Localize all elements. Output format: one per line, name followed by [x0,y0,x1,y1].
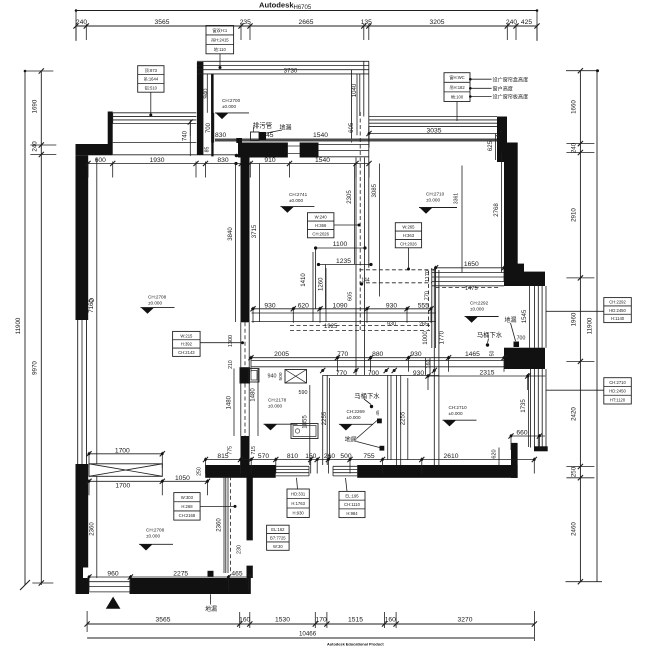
dim 2768 vertical [493,153,502,273]
label huasa [345,421,380,448]
svg-text:230: 230 [236,545,242,554]
dim 660 [508,429,545,450]
washbasin [245,369,259,383]
bedroomA east wall lines [356,158,365,376]
svg-text:2360: 2360 [88,522,95,536]
entry arrow triangle [106,597,121,609]
svg-text:265: 265 [419,321,428,327]
svg-text:CH:2710: CH:2710 [449,405,468,410]
svg-text:85: 85 [205,147,211,153]
callout tag box at 444,72.7 [444,73,492,121]
dim row y139 [215,132,328,139]
vanity cabinet [285,370,307,384]
shower squares [377,419,384,451]
bathtub [291,424,318,439]
svg-text:±0.000: ±0.000 [222,104,236,109]
dim row 1700/1050 [86,475,210,496]
dim 3840 vertical [227,164,236,323]
svg-text:HD:2450: HD:2450 [609,308,626,313]
svg-text:窗H:WC: 窗H:WC [449,74,464,81]
svg-text:HD:331: HD:331 [291,491,306,496]
svg-text:425: 425 [521,19,532,26]
room label CH:2700 [215,98,249,119]
svg-text:2460: 2460 [571,522,578,536]
door central 1 [241,322,249,367]
svg-text:1660: 1660 [571,100,578,114]
dim 2255 vertical a [321,378,329,460]
door hinge circle [90,298,94,302]
svg-text:1530: 1530 [275,616,290,623]
dim 1475 dashed [436,286,499,292]
dim 700 vertical [205,113,214,143]
room2 east wall upper [247,476,253,540]
wall south east segment [357,465,517,478]
svg-text:CH:2741: CH:2741 [289,192,308,197]
dim 1855 vertical [302,385,310,465]
svg-text:CH:2178: CH:2178 [268,397,287,402]
svg-text:H:268: H:268 [181,504,193,509]
svg-text:3270: 3270 [458,616,473,623]
wall bottom-left block [76,578,90,594]
dim 1040 vertical [351,74,360,116]
label dilou toilet [504,316,516,341]
callout tag box at 206,25.5 [206,26,234,67]
svg-text:160: 160 [426,360,432,369]
svg-text:Autodesk: Autodesk [259,1,294,10]
svg-text:3035: 3035 [427,127,442,134]
svg-text:CH:2700: CH:2700 [222,98,241,103]
svg-text:240: 240 [76,19,87,26]
svg-text:地漏: 地漏 [504,316,516,324]
wall central upper [241,144,250,323]
dim row y163 [85,157,371,178]
dim 1735 vertical [520,373,529,447]
callout tag box at 137.7,65.7 [138,66,164,114]
dot duct cross [360,282,363,285]
svg-text:910: 910 [264,157,275,164]
dim 625 vertical [487,134,495,161]
svg-text:555: 555 [418,302,429,309]
svg-text:1260: 1260 [317,277,324,291]
wall thin x211 [211,74,213,156]
callout tag box at 603.8,297.6 [546,298,631,323]
svg-text:CH:2708: CH:2708 [148,294,167,299]
wall left bottom small [76,568,84,595]
dim 2315 [425,369,545,390]
svg-text:700: 700 [205,122,212,133]
room label CH:2710 [443,405,477,427]
svg-text:135: 135 [361,19,372,26]
dim 2305 vertical [346,164,355,265]
svg-text:465: 465 [231,570,242,577]
svg-text:770: 770 [337,351,348,358]
room label CH:2292 [465,300,499,322]
dim 2360 vertical b [216,476,224,573]
svg-text:马桶下水: 马桶下水 [354,391,380,400]
cabinet hatched [89,464,162,477]
wall central lower [241,436,250,477]
svg-text:CH:2708: CH:2708 [146,527,165,532]
svg-text:50: 50 [490,351,496,357]
dim 2360 vertical a [88,476,96,578]
svg-text:1700: 1700 [115,482,130,489]
dim 3085 vertical [371,164,380,297]
svg-text:1050: 1050 [175,475,190,482]
svg-text:窗户高度: 窗户高度 [493,85,513,92]
dim 740 vertical [182,119,193,156]
room2 east door [247,540,253,566]
room label CH:2710 [419,191,457,213]
room label CH:2708 [139,527,173,550]
svg-text:940: 940 [203,88,210,99]
callout tag box at 266.6,525.2 [267,525,290,550]
svg-text:CH:1110: CH:1110 [344,502,361,507]
svg-text:W:215: W:215 [180,333,193,338]
svg-text:1960: 1960 [571,312,578,326]
callout tag box at 339,491.4 [339,478,365,518]
svg-text:930: 930 [264,302,275,309]
svg-text:H:392: H:392 [181,342,193,347]
bath1 shaft wall pair B [396,375,400,465]
window band top-left balcony [113,113,197,124]
label dilou bottom [205,594,217,613]
svg-text:3361: 3361 [454,193,460,204]
svg-text:11900: 11900 [15,317,22,334]
svg-text:铝:510: 铝:510 [145,84,158,91]
svg-text:地屚: 地屚 [345,435,357,443]
svg-text:3730: 3730 [284,68,298,75]
svg-text:160: 160 [385,616,396,623]
svg-text:3565: 3565 [156,616,171,623]
wall bottom band room2 [130,578,251,594]
dim row y309 [250,302,433,323]
wall right corner block B [524,272,545,286]
svg-text:250: 250 [196,467,202,476]
svg-text:605: 605 [348,292,354,301]
svg-text:1855: 1855 [302,415,309,429]
svg-text:570: 570 [258,453,269,460]
svg-text:620: 620 [298,302,309,309]
svg-text:260: 260 [324,453,335,460]
svg-text:150: 150 [305,453,316,460]
bath1 shaft wall pair A [388,375,391,460]
svg-text:3205: 3205 [430,19,445,26]
svg-text:930: 930 [387,321,396,327]
svg-text:1480: 1480 [226,395,233,409]
wall bed2 SE vertical [511,443,518,478]
svg-text:160: 160 [239,616,250,623]
south steps A [276,466,309,476]
svg-text:1540: 1540 [313,132,328,139]
svg-text:CH:2710: CH:2710 [609,380,626,385]
drain square toilet [514,342,520,348]
svg-text:45: 45 [375,410,381,416]
svg-text:11900: 11900 [587,317,594,334]
svg-text:770: 770 [425,291,431,300]
room label CH:2178 [264,397,298,430]
svg-text:960: 960 [107,570,118,577]
svg-text:625: 625 [487,140,494,151]
drain square room2 [208,571,214,577]
callout tag box at 172.6,331.4 [173,331,242,356]
room label CH:2269 [339,409,373,431]
dim 1650 [433,261,507,282]
svg-text:CH:2292: CH:2292 [609,299,626,304]
dimension chain right inner [566,68,603,584]
dim 3035 [366,127,501,147]
svg-text:1770: 1770 [439,330,446,344]
svg-text:±0.000: ±0.000 [148,301,162,306]
svg-text:±0.000: ±0.000 [268,404,282,409]
wall right main upper [504,143,518,273]
dashed vertical x428 [428,271,430,330]
dimension chain left inner [24,68,56,585]
callout tag box at 395.3,222.7 [395,223,421,268]
svg-text:620: 620 [492,449,498,458]
dim row y459 [203,453,537,474]
dim 1700 upper [86,447,164,468]
svg-text:740: 740 [182,130,189,141]
svg-text:3085: 3085 [371,183,378,197]
hall south wall lines [252,361,512,367]
svg-text:2315: 2315 [480,369,495,376]
svg-text:1650: 1650 [464,261,479,268]
svg-text:2275: 2275 [173,570,188,577]
svg-text:1235: 1235 [336,258,351,265]
svg-text:1545: 1545 [521,309,528,323]
svg-text:地漏: 地漏 [205,605,217,613]
svg-text:±0.000: ±0.000 [470,307,484,312]
wall mid top segment B [300,143,319,158]
svg-text:设广窗帘盒高度: 设广窗帘盒高度 [493,77,529,84]
svg-text:235: 235 [240,19,251,26]
bath1 east wall [426,358,431,375]
room label CH:2741 [280,192,314,213]
drain square filled [259,130,282,140]
room3 east wall lines [352,61,369,142]
svg-text:CH:2269: CH:2269 [347,409,366,414]
room2 east wall lower [247,566,253,578]
wall left lower [76,464,89,568]
dim 940 vertical [203,74,212,114]
dim 1410 vertical [300,252,313,322]
svg-text:地:100: 地:100 [451,93,464,99]
svg-text:1515: 1515 [348,616,363,623]
svg-text:1735: 1735 [520,399,527,413]
svg-text:7160: 7160 [88,299,95,313]
svg-text:W:303: W:303 [181,495,194,500]
svg-text:2910: 2910 [571,208,578,222]
svg-text:1930: 1930 [150,157,165,164]
svg-text:CH:2026: CH:2026 [312,231,329,236]
svg-text:10466: 10466 [299,630,317,637]
svg-text:±0.000: ±0.000 [289,198,303,203]
callout tag box at 287,489 [287,478,309,518]
svg-text:2255: 2255 [321,411,328,425]
wall vertical bar x196 [197,62,204,155]
svg-text:250: 250 [571,466,578,477]
svg-text:2360: 2360 [216,518,223,532]
wall right corner block A [504,264,524,286]
svg-text:1000: 1000 [422,331,429,345]
svg-text:1090: 1090 [333,302,348,309]
dimension chain right outer 11900 [587,69,600,582]
shaft dashed lines [359,270,435,283]
svg-text:W:30: W:30 [273,544,283,549]
svg-text:830: 830 [217,157,228,164]
dimension chain bottom overall 10466 [87,630,534,638]
svg-text:CH:2710: CH:2710 [426,191,445,196]
svg-text:±0.000: ±0.000 [146,534,160,539]
svg-text:605: 605 [348,122,355,133]
svg-text:2255: 2255 [400,411,407,425]
svg-text:2610: 2610 [444,453,459,460]
wall mid top segment A [238,143,288,158]
svg-text:240: 240 [32,141,39,152]
svg-text:H:930: H:930 [293,510,305,515]
svg-text:45: 45 [266,132,274,139]
door bottom-left [89,582,130,592]
svg-text:240: 240 [571,142,578,153]
svg-text:1300: 1300 [228,335,234,347]
svg-text:1040: 1040 [351,83,358,97]
svg-text:马桶下水: 马桶下水 [477,330,503,339]
label matong toilet room [477,330,503,347]
svg-text:±0.000: ±0.000 [347,415,361,420]
wall lined segment top [319,145,370,157]
duct dashed vertical [359,112,361,330]
toilet room west wall [432,268,436,348]
svg-text:H:366: H:366 [315,223,327,228]
svg-text:1480: 1480 [250,388,257,402]
svg-text:3715: 3715 [251,224,258,238]
wall south west segment [205,465,276,478]
svg-text:CH:2026: CH:2026 [400,241,417,246]
svg-text:660: 660 [516,429,527,436]
wall top-left corner [76,144,113,155]
dim 1100 [314,241,367,250]
svg-text:2305: 2305 [346,190,353,204]
svg-text:715: 715 [251,446,257,455]
dim row y357 [248,351,506,372]
toilet room north window lines [432,273,504,286]
svg-text:2665: 2665 [299,19,314,26]
dim 1000 vertical [422,330,430,348]
dim 1235 [317,258,373,266]
dim 3715 vertical [251,164,260,323]
svg-text:CH:2143: CH:2143 [178,350,195,355]
label matong bath1 [354,391,380,408]
svg-text:700: 700 [517,336,526,342]
south steps B [333,466,357,476]
bath west wall lines [226,476,231,573]
svg-text:755: 755 [363,453,374,460]
callout tag box at 173.8,492.6 [174,493,234,520]
dim 7160 vertical [88,158,97,465]
bath south boundary line [323,375,439,377]
room label CH:2708 [141,294,175,314]
svg-text:3565: 3565 [155,19,170,26]
svg-text:1690: 1690 [32,99,39,113]
window band room3 top [197,61,369,74]
svg-text:±0.000: ±0.000 [449,411,463,416]
svg-text:地漏: 地漏 [279,124,291,132]
dim 1545 vertical [521,286,530,348]
svg-text:B7:7725: B7:7725 [270,535,286,540]
room4 west wall line [368,127,370,268]
dim 1260 vertical [317,268,326,322]
bath divider wall 1 [323,375,328,465]
labels near 1925 [387,321,428,327]
door central 2 [241,384,249,437]
window right 2 [531,369,547,448]
dimension chain top [73,9,539,41]
svg-text:2005: 2005 [274,351,289,358]
svg-text:EL:195: EL:195 [345,493,359,498]
svg-text:810: 810 [287,453,298,460]
wall window end piece [534,446,548,451]
svg-text:170: 170 [316,616,327,623]
svg-text:1410: 1410 [300,273,307,287]
svg-text:1700: 1700 [115,447,130,454]
title Autodesk [259,1,312,12]
svg-text:HT:1120: HT:1120 [610,397,626,402]
callout tag box at 603.8,377.7 [546,378,631,404]
svg-text:880: 880 [372,351,383,358]
wall left upper [76,155,89,320]
svg-text:排污管: 排污管 [253,121,273,130]
svg-text:830: 830 [215,132,226,139]
bed2 west wall [434,270,439,465]
dim row y577 [86,570,251,591]
svg-text:930: 930 [410,351,421,358]
svg-text:设广窗帘板高度: 设广窗帘板高度 [493,94,529,101]
dim 2255 vertical b [400,378,408,460]
svg-text:CH:2168: CH:2168 [179,513,196,518]
window right 1 [535,286,547,348]
window band room4 top [369,117,497,127]
svg-text:1475: 1475 [465,286,478,292]
wall central mid block [240,367,251,383]
dim 1480 vertical a [226,369,234,437]
svg-text:EL:162: EL:162 [271,527,285,532]
svg-text:地:110: 地:110 [214,46,227,52]
wall top-left stub [108,112,113,145]
wall right band 2 [504,348,545,369]
svg-text:1100: 1100 [333,241,348,248]
dimension chain left outer 11900 [15,70,30,590]
svg-text:1465: 1465 [465,351,480,358]
svg-text:±0.000: ±0.000 [426,198,440,203]
window left wall [78,320,87,464]
door top gap [288,143,301,158]
svg-text:H:1140: H:1140 [611,316,625,321]
dim row y370 [251,368,445,377]
balcony corridor lines [113,143,237,155]
room3 west wall lines [207,74,211,143]
svg-text:940: 940 [268,374,277,380]
svg-text:500: 500 [278,372,284,380]
kitchen counter band gray [215,138,499,143]
callout tag box at 307.5,212.7 [308,213,359,238]
svg-text:775: 775 [228,446,234,455]
dimension chain bottom segments [85,611,538,641]
leader texts right of C3 [469,77,528,101]
svg-text:CH:2292: CH:2292 [470,300,489,305]
dim 1480 vertical b [250,369,258,437]
svg-text:W:265: W:265 [402,225,415,230]
svg-text:H:1763: H:1763 [291,501,305,506]
